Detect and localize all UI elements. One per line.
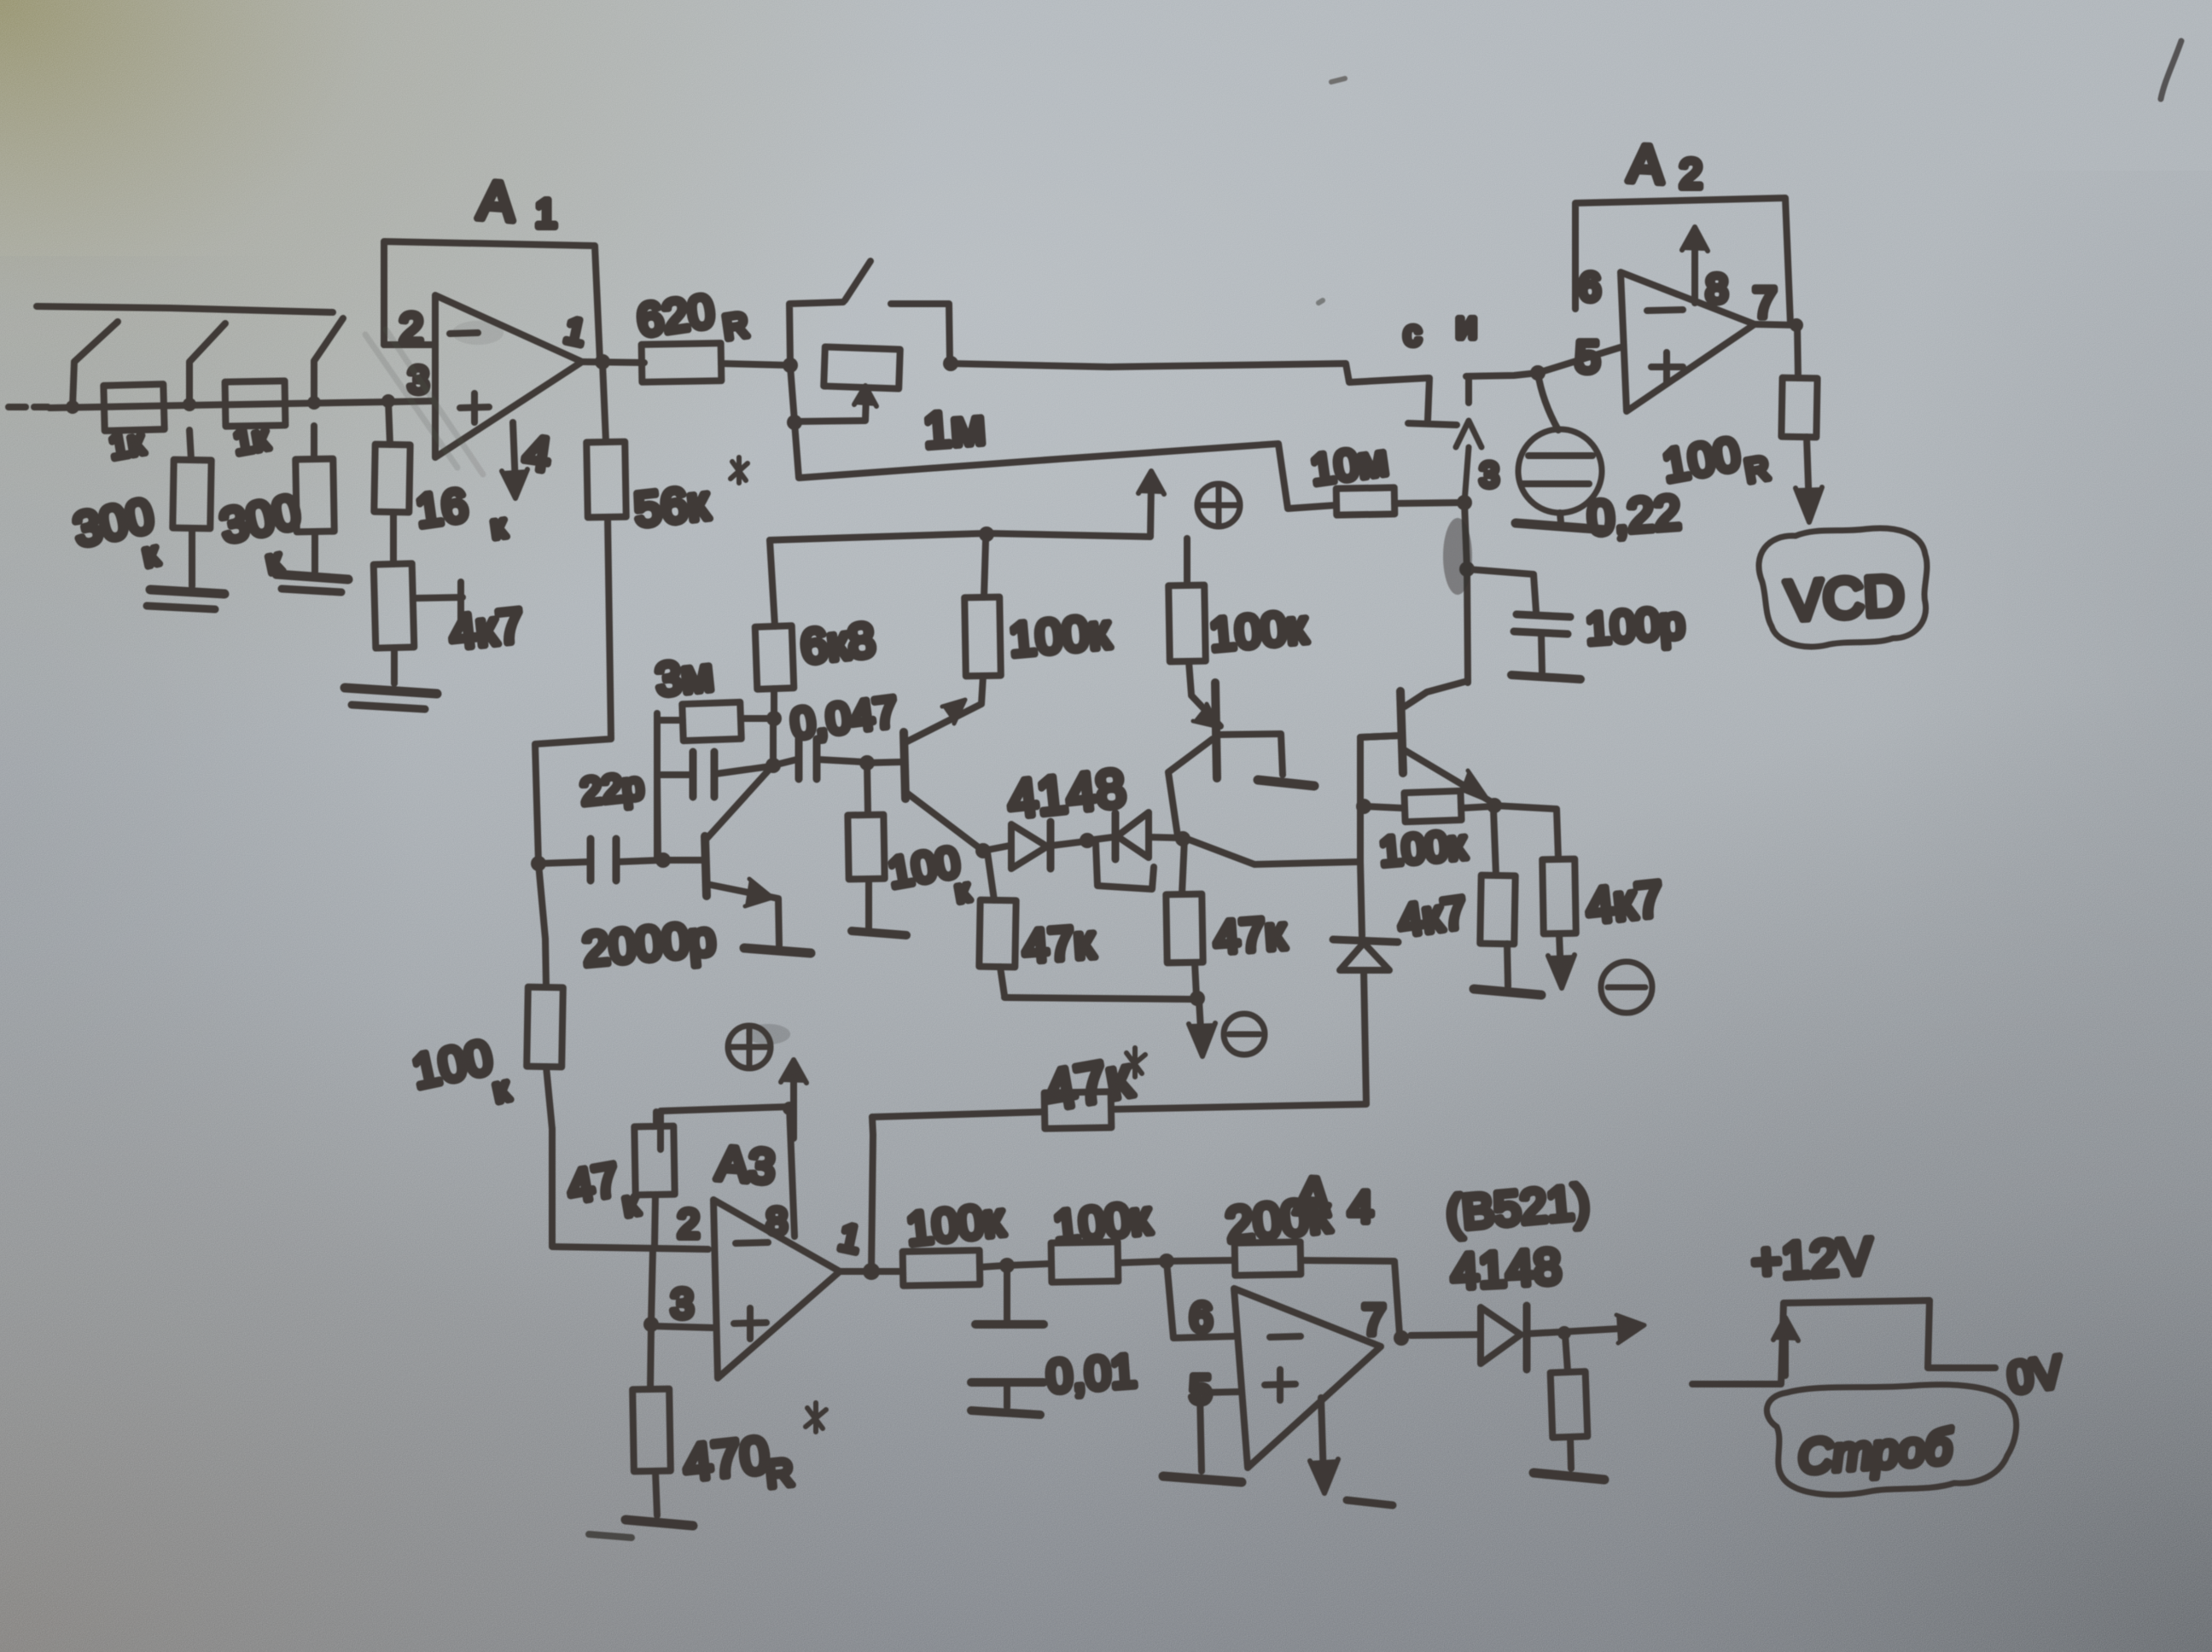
svg-text:4к7: 4к7 xyxy=(447,598,527,660)
svg-text:R: R xyxy=(721,306,751,347)
svg-text:и: и xyxy=(1456,305,1477,346)
svg-text:22p: 22p xyxy=(579,765,645,813)
svg-text:3: 3 xyxy=(671,1282,694,1327)
svg-text:VCD: VCD xyxy=(1784,563,1906,632)
svg-text:47: 47 xyxy=(563,1154,623,1213)
svg-text:16: 16 xyxy=(413,480,471,538)
svg-text:с: с xyxy=(1404,315,1421,352)
svg-text:4148: 4148 xyxy=(1450,1238,1563,1300)
svg-text:6: 6 xyxy=(1579,265,1601,309)
svg-text:Строб: Строб xyxy=(1796,1419,1956,1484)
svg-text:47к: 47к xyxy=(1212,908,1287,964)
svg-text:R: R xyxy=(764,1451,795,1496)
svg-text:100к: 100к xyxy=(1051,1192,1154,1254)
svg-text:7: 7 xyxy=(1362,1296,1386,1344)
svg-text:620: 620 xyxy=(634,285,718,346)
svg-text:A: A xyxy=(1627,134,1666,195)
svg-text:100к: 100к xyxy=(1377,823,1468,875)
svg-text:3м: 3м xyxy=(653,649,715,706)
svg-text:2: 2 xyxy=(678,1201,700,1246)
svg-text:2: 2 xyxy=(399,305,423,352)
svg-text:0,01: 0,01 xyxy=(1045,1345,1138,1402)
svg-text:1к: 1к xyxy=(107,423,147,466)
svg-text:+12V: +12V xyxy=(1750,1227,1874,1290)
svg-text:4: 4 xyxy=(1348,1183,1373,1232)
svg-text:2: 2 xyxy=(1679,152,1703,197)
svg-text:470: 470 xyxy=(681,1426,772,1492)
svg-text:6: 6 xyxy=(1190,1295,1213,1341)
svg-text:100к: 100к xyxy=(905,1194,1007,1255)
svg-text:0,22: 0,22 xyxy=(1586,485,1682,544)
svg-text:6к8: 6к8 xyxy=(798,613,877,674)
svg-text:3: 3 xyxy=(1480,457,1499,494)
svg-text:4к7: 4к7 xyxy=(1395,887,1470,946)
svg-text:5: 5 xyxy=(1575,333,1600,382)
svg-text:100к: 100к xyxy=(1208,602,1309,661)
svg-text:A: A xyxy=(1293,1166,1333,1228)
svg-text:0V: 0V xyxy=(2005,1347,2065,1404)
svg-text:4к7: 4к7 xyxy=(1584,871,1666,934)
svg-text:100к: 100к xyxy=(1007,604,1112,666)
svg-text:1к: 1к xyxy=(231,419,271,462)
svg-text:A: A xyxy=(476,169,517,233)
svg-text:1: 1 xyxy=(535,191,557,236)
svg-text:A3: A3 xyxy=(715,1136,777,1194)
svg-text:1м: 1м xyxy=(922,399,987,459)
svg-text:7: 7 xyxy=(1753,279,1777,327)
svg-text:4148: 4148 xyxy=(1005,759,1128,829)
svg-text:47к: 47к xyxy=(1021,916,1096,973)
svg-text:8: 8 xyxy=(1706,266,1728,311)
svg-text:100p: 100p xyxy=(1584,598,1685,654)
svg-text:56к: 56к xyxy=(632,475,711,537)
